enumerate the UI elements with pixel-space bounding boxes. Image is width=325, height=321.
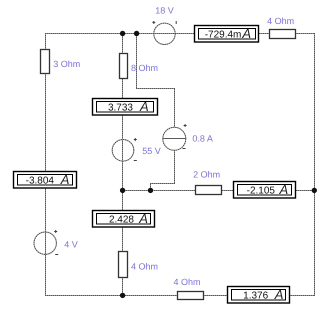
svg-text:4 V: 4 V: [64, 240, 78, 250]
wire right vertical: [314, 33, 316, 296]
ammeter M6 1.376: [228, 287, 290, 304]
svg-text:3.733: 3.733: [108, 103, 133, 114]
svg-text:A: A: [279, 182, 289, 197]
wire left vertical: [45, 33, 47, 296]
junction middle 2: [148, 188, 153, 193]
wire current source bottom elbow horizontal: [150, 183, 175, 185]
voltage source 18 V: [152, 21, 176, 45]
ammeter M5 -2.105: [234, 182, 296, 199]
wire bottom horizontal: [45, 295, 315, 297]
svg-text:4 Ohm: 4 Ohm: [267, 16, 294, 26]
svg-text:2.428: 2.428: [109, 215, 134, 226]
svg-text:18 V: 18 V: [155, 6, 174, 16]
svg-text:4 Ohm: 4 Ohm: [131, 262, 158, 272]
resistor 4 Ohm bottom: [178, 292, 204, 300]
svg-text:8 Ohm: 8 Ohm: [131, 63, 158, 73]
current source 0.8 A: [163, 124, 187, 150]
wire to current source top vertical 1: [136, 33, 138, 88]
wire from current source bottom vertical: [174, 150, 176, 183]
voltage source 4 V: [34, 230, 58, 255]
resistor 8 Ohm: [120, 54, 128, 79]
svg-text:A: A: [241, 26, 251, 41]
wire to current source elbow horizontal: [136, 88, 175, 90]
junction middle 1: [120, 188, 125, 193]
svg-text:-2.105: -2.105: [247, 186, 276, 197]
wire middle branch vertical: [122, 33, 124, 296]
junction top 1: [120, 31, 125, 36]
svg-text:4 Ohm: 4 Ohm: [174, 277, 201, 287]
junction right: [312, 188, 317, 193]
svg-text:-3.804: -3.804: [26, 176, 55, 187]
svg-text:A: A: [138, 211, 148, 226]
resistor 2 Ohm: [196, 186, 222, 195]
resistor 3 Ohm: [41, 50, 50, 74]
svg-text:-729.4m: -729.4m: [205, 30, 242, 41]
resistor 4 Ohm top right: [270, 30, 296, 39]
svg-text:0.8 A: 0.8 A: [192, 134, 213, 144]
junction top 2: [134, 31, 139, 36]
svg-text:A: A: [60, 172, 70, 187]
svg-text:1.376: 1.376: [243, 291, 268, 302]
wire top horizontal: [45, 33, 315, 35]
ammeter M4 -729.4m: [195, 26, 259, 43]
svg-text:A: A: [139, 99, 149, 114]
ammeter M1 3.733: [93, 99, 158, 116]
wire current source drop to node: [150, 184, 152, 191]
ammeter M3 -3.804: [14, 172, 77, 189]
voltage source 55 V: [112, 138, 137, 161]
wire to current source top vertical 2: [174, 89, 176, 127]
junction bottom: [120, 293, 125, 298]
svg-text:A: A: [274, 287, 284, 302]
svg-text:3 Ohm: 3 Ohm: [53, 59, 80, 69]
svg-text:55 V: 55 V: [142, 146, 161, 156]
svg-text:2 Ohm: 2 Ohm: [193, 170, 220, 180]
wire middle horizontal: [122, 190, 315, 192]
resistor 4 Ohm vertical: [119, 252, 128, 278]
ammeter M2 2.428: [93, 211, 155, 228]
